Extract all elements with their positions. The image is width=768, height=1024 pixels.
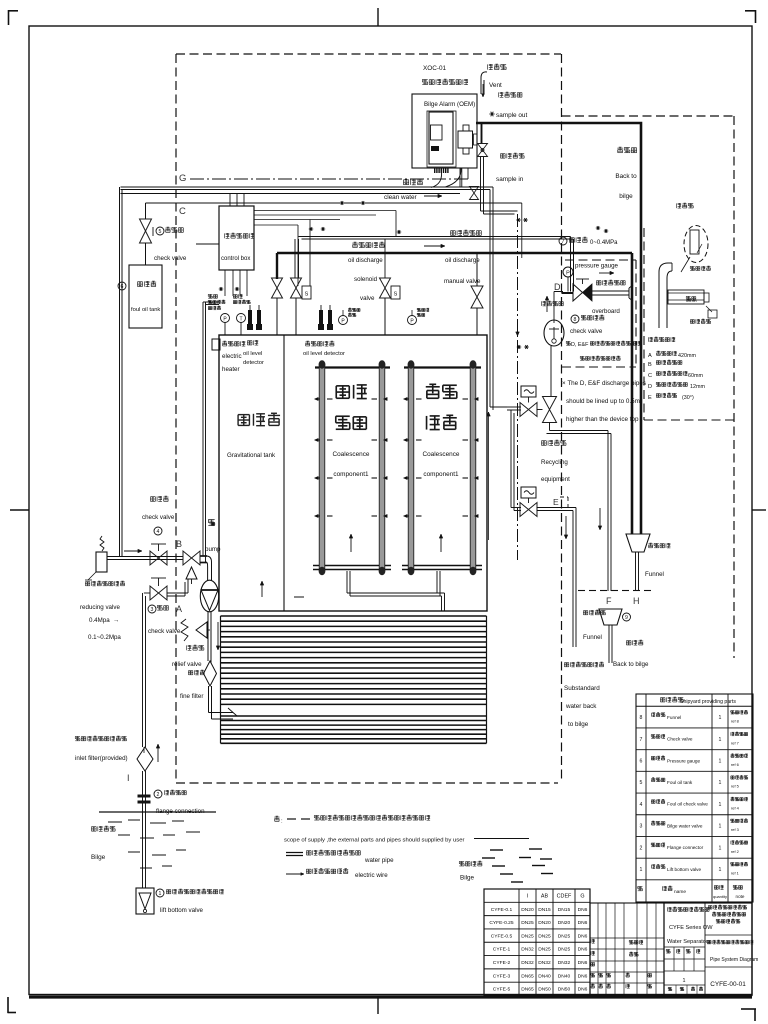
svg-text:CYFE Series OW: CYFE Series OW (669, 925, 713, 931)
svg-text:CDEF: CDEF (557, 894, 572, 900)
svg-text:bilge: bilge (619, 193, 633, 200)
svg-text:CYFE-3: CYFE-3 (493, 973, 511, 979)
svg-text:9: 9 (625, 615, 628, 621)
svg-text:Check valve: Check valve (667, 737, 693, 742)
svg-text:CYFE-0.5: CYFE-0.5 (491, 933, 513, 939)
svg-text:DN20: DN20 (521, 907, 534, 913)
svg-text:8: 8 (640, 715, 643, 721)
svg-text:quantity: quantity (713, 894, 727, 899)
svg-text:DN50: DN50 (538, 987, 551, 993)
svg-text:Back to bilge: Back to bilge (613, 661, 649, 668)
svg-text:P: P (341, 319, 345, 325)
svg-text:4: 4 (640, 802, 643, 808)
svg-text:heater: heater (222, 366, 240, 373)
svg-text:G: G (179, 173, 186, 184)
svg-text:ref 4: ref 4 (731, 805, 740, 810)
svg-text:ref 8: ref 8 (731, 719, 739, 724)
svg-text:0.1~0.2Mpa: 0.1~0.2Mpa (88, 634, 121, 641)
svg-text:3: 3 (151, 607, 154, 613)
svg-text:Flange connector: Flange connector (667, 845, 704, 850)
svg-text:G: G (580, 894, 584, 900)
svg-text:Pressure gauge: Pressure gauge (667, 758, 700, 763)
svg-text:check valve: check valve (148, 628, 181, 635)
svg-text:DN20: DN20 (538, 920, 551, 926)
svg-text:→: → (113, 617, 119, 624)
svg-text:Bilge Alarm (OEM): Bilge Alarm (OEM) (424, 101, 475, 108)
svg-text:D: D (648, 384, 652, 390)
svg-text:6: 6 (121, 284, 124, 290)
svg-text:S: S (305, 292, 309, 298)
svg-text:DN40: DN40 (538, 973, 551, 979)
svg-text:oil level detector: oil level detector (303, 351, 345, 357)
svg-text:DN25: DN25 (558, 933, 571, 939)
svg-text:420mm: 420mm (678, 353, 696, 359)
svg-text:C: C (179, 206, 186, 217)
svg-text:Funnel: Funnel (667, 715, 681, 720)
svg-text:F: F (606, 596, 612, 606)
svg-text:× The D, E&F discharge pipes: × The D, E&F discharge pipes (562, 380, 646, 387)
svg-text:Substandard: Substandard (564, 685, 600, 692)
svg-text:A: A (176, 604, 182, 614)
svg-text:sample in: sample in (496, 176, 524, 183)
svg-text:check valve: check valve (142, 514, 175, 521)
svg-text:foul oil tank: foul oil tank (131, 307, 160, 313)
svg-text:DN6: DN6 (578, 960, 588, 966)
svg-text:AB: AB (541, 894, 549, 900)
svg-text:I: I (527, 894, 529, 900)
svg-text:fine filter: fine filter (180, 693, 203, 700)
svg-text:ref 2: ref 2 (731, 849, 739, 854)
svg-text:DN25: DN25 (538, 947, 551, 953)
svg-text:ref 7: ref 7 (731, 740, 739, 745)
svg-text:DN25: DN25 (538, 933, 551, 939)
svg-text:CYFE-00-01: CYFE-00-01 (710, 981, 746, 988)
svg-text:component1: component1 (333, 471, 369, 478)
svg-text:equipment: equipment (541, 476, 570, 483)
svg-text:overboard: overboard (592, 308, 620, 315)
svg-text:1: 1 (719, 737, 722, 743)
svg-text:name: name (674, 890, 686, 895)
svg-text:DN25: DN25 (521, 920, 534, 926)
svg-text:pump: pump (205, 546, 221, 553)
svg-text::: : (281, 819, 283, 825)
svg-text:D, E&F: D, E&F (571, 342, 589, 348)
svg-text:should be lined up to 0.5m: should be lined up to 0.5m (566, 398, 640, 405)
svg-text:lift bottom valve: lift bottom valve (160, 907, 204, 914)
svg-text:oil discharge: oil discharge (348, 257, 383, 264)
svg-text:water back: water back (565, 703, 597, 710)
svg-text:1: 1 (719, 780, 722, 786)
svg-text:to bilge: to bilge (568, 721, 589, 728)
svg-text:DN50: DN50 (558, 987, 571, 993)
svg-text:A: A (648, 353, 652, 359)
svg-text:Bilge water valve: Bilge water valve (667, 823, 703, 828)
svg-text:ref 5: ref 5 (731, 784, 739, 789)
svg-text:Bilge: Bilge (460, 875, 474, 882)
svg-text:CYFE-5: CYFE-5 (493, 987, 511, 993)
svg-text:oil level: oil level (243, 351, 262, 357)
svg-text:clean water: clean water (384, 194, 418, 201)
svg-text:oil discharge: oil discharge (445, 257, 480, 264)
svg-text:0~0.4MPa: 0~0.4MPa (590, 240, 618, 246)
svg-text:electric: electric (222, 353, 242, 360)
svg-text:DN6: DN6 (578, 933, 588, 939)
svg-text:1: 1 (719, 867, 722, 873)
svg-text:CYFE-0.1: CYFE-0.1 (491, 907, 513, 913)
svg-text:DN6: DN6 (578, 947, 588, 953)
svg-text:DN15: DN15 (538, 907, 551, 913)
svg-text:control box: control box (221, 256, 250, 262)
svg-text:solenoid: solenoid (354, 276, 378, 283)
svg-text:DN6: DN6 (578, 973, 588, 979)
svg-text:reducing valve: reducing valve (80, 604, 120, 611)
svg-text:P: P (566, 271, 570, 277)
svg-text:DN6: DN6 (578, 907, 588, 913)
svg-text:E: E (648, 395, 652, 401)
svg-text:DN65: DN65 (521, 973, 534, 979)
svg-text:Back to: Back to (615, 173, 637, 180)
svg-text:check valve: check valve (154, 255, 187, 262)
svg-text:pressure gauge: pressure gauge (575, 263, 619, 270)
svg-text:0.4Mpa: 0.4Mpa (89, 617, 110, 624)
svg-text:Water Separators: Water Separators (667, 939, 711, 945)
svg-text:scope of supply ,the external: scope of supply ,the external parts and … (284, 838, 464, 844)
svg-text:ref 3: ref 3 (731, 827, 739, 832)
svg-text:H: H (633, 596, 640, 606)
svg-text:inlet filter(provided): inlet filter(provided) (75, 755, 128, 762)
svg-text:S: S (394, 292, 398, 298)
svg-text:CYFE-1: CYFE-1 (493, 947, 511, 953)
svg-text:C: C (648, 373, 652, 379)
svg-text:DN25: DN25 (521, 933, 534, 939)
svg-text:Coalescence: Coalescence (333, 451, 370, 458)
svg-text:1: 1 (719, 845, 722, 851)
svg-text:6: 6 (640, 759, 643, 765)
svg-text:3: 3 (640, 824, 643, 830)
svg-text:Gravitational tank: Gravitational tank (227, 452, 276, 459)
svg-text:check valve: check valve (570, 328, 603, 335)
svg-text:DN15: DN15 (558, 907, 571, 913)
svg-text:water pipe: water pipe (364, 857, 394, 864)
svg-text:DN32: DN32 (538, 960, 551, 966)
svg-text:Pipe System Diagram: Pipe System Diagram (710, 957, 758, 963)
svg-text:Funnel: Funnel (645, 571, 664, 578)
svg-text:8: 8 (574, 317, 577, 323)
svg-text:Foul oil check valve: Foul oil check valve (667, 802, 708, 807)
svg-text:7: 7 (640, 737, 643, 743)
svg-text:DN6: DN6 (578, 987, 588, 993)
svg-text:component1: component1 (423, 471, 459, 478)
svg-text:I: I (127, 773, 130, 783)
svg-text:Foul oil tank: Foul oil tank (667, 780, 693, 785)
svg-text:DN20: DN20 (558, 920, 571, 926)
svg-text:detector: detector (243, 360, 264, 366)
svg-text:B: B (176, 539, 182, 549)
svg-text:D: D (554, 282, 561, 292)
svg-text:electric wire: electric wire (355, 872, 388, 879)
svg-text:5mm: 5mm (686, 298, 697, 304)
svg-text:CYFE-2: CYFE-2 (493, 960, 511, 966)
svg-text:4: 4 (157, 529, 160, 535)
svg-text:12mm: 12mm (690, 384, 705, 390)
svg-text:ref 1: ref 1 (731, 871, 739, 876)
svg-text:2: 2 (640, 845, 643, 851)
svg-text:sample out: sample out (496, 112, 527, 119)
svg-text:Funnel: Funnel (583, 634, 602, 641)
svg-text:E: E (553, 497, 559, 507)
svg-text:higher than the device top: higher than the device top (566, 416, 639, 423)
svg-text:P: P (223, 317, 227, 323)
svg-text:DN6: DN6 (578, 920, 588, 926)
svg-text:DN32: DN32 (521, 960, 534, 966)
svg-text:manual valve: manual valve (444, 278, 481, 285)
svg-text:5: 5 (159, 229, 162, 235)
svg-text:B: B (648, 362, 652, 368)
svg-text:note: note (736, 894, 745, 899)
svg-text:1: 1 (719, 824, 722, 830)
svg-text:7: 7 (562, 239, 565, 245)
svg-text:1: 1 (683, 978, 686, 984)
svg-text:XOC-01: XOC-01 (423, 65, 447, 72)
svg-text:1: 1 (640, 867, 643, 873)
svg-text:relief valve: relief valve (172, 661, 202, 668)
svg-text:ref 6: ref 6 (731, 762, 739, 767)
svg-text:DN25: DN25 (558, 947, 571, 953)
svg-text:(30°): (30°) (682, 395, 694, 401)
svg-text:DN40: DN40 (558, 973, 571, 979)
svg-text:Bilge: Bilge (91, 854, 106, 861)
svg-text:5: 5 (640, 780, 643, 786)
svg-text:T: T (239, 317, 242, 323)
svg-text:Recycling: Recycling (541, 459, 568, 466)
svg-text:CYFE-0.25: CYFE-0.25 (489, 920, 513, 926)
svg-text:1: 1 (719, 759, 722, 765)
svg-text:DN32: DN32 (521, 947, 534, 953)
svg-text:valve: valve (360, 295, 375, 302)
svg-text:DN65: DN65 (521, 987, 534, 993)
svg-text:60mm: 60mm (688, 373, 703, 379)
svg-text:DN32: DN32 (558, 960, 571, 966)
svg-text:Vent: Vent (489, 82, 502, 89)
svg-text:1: 1 (719, 802, 722, 808)
svg-text:1: 1 (159, 891, 162, 897)
svg-text:P: P (410, 319, 414, 325)
svg-text:Coalescence: Coalescence (423, 451, 460, 458)
svg-text:2: 2 (157, 792, 160, 798)
svg-text:1: 1 (719, 715, 722, 721)
svg-text:Lift bottom valve: Lift bottom valve (667, 867, 702, 872)
